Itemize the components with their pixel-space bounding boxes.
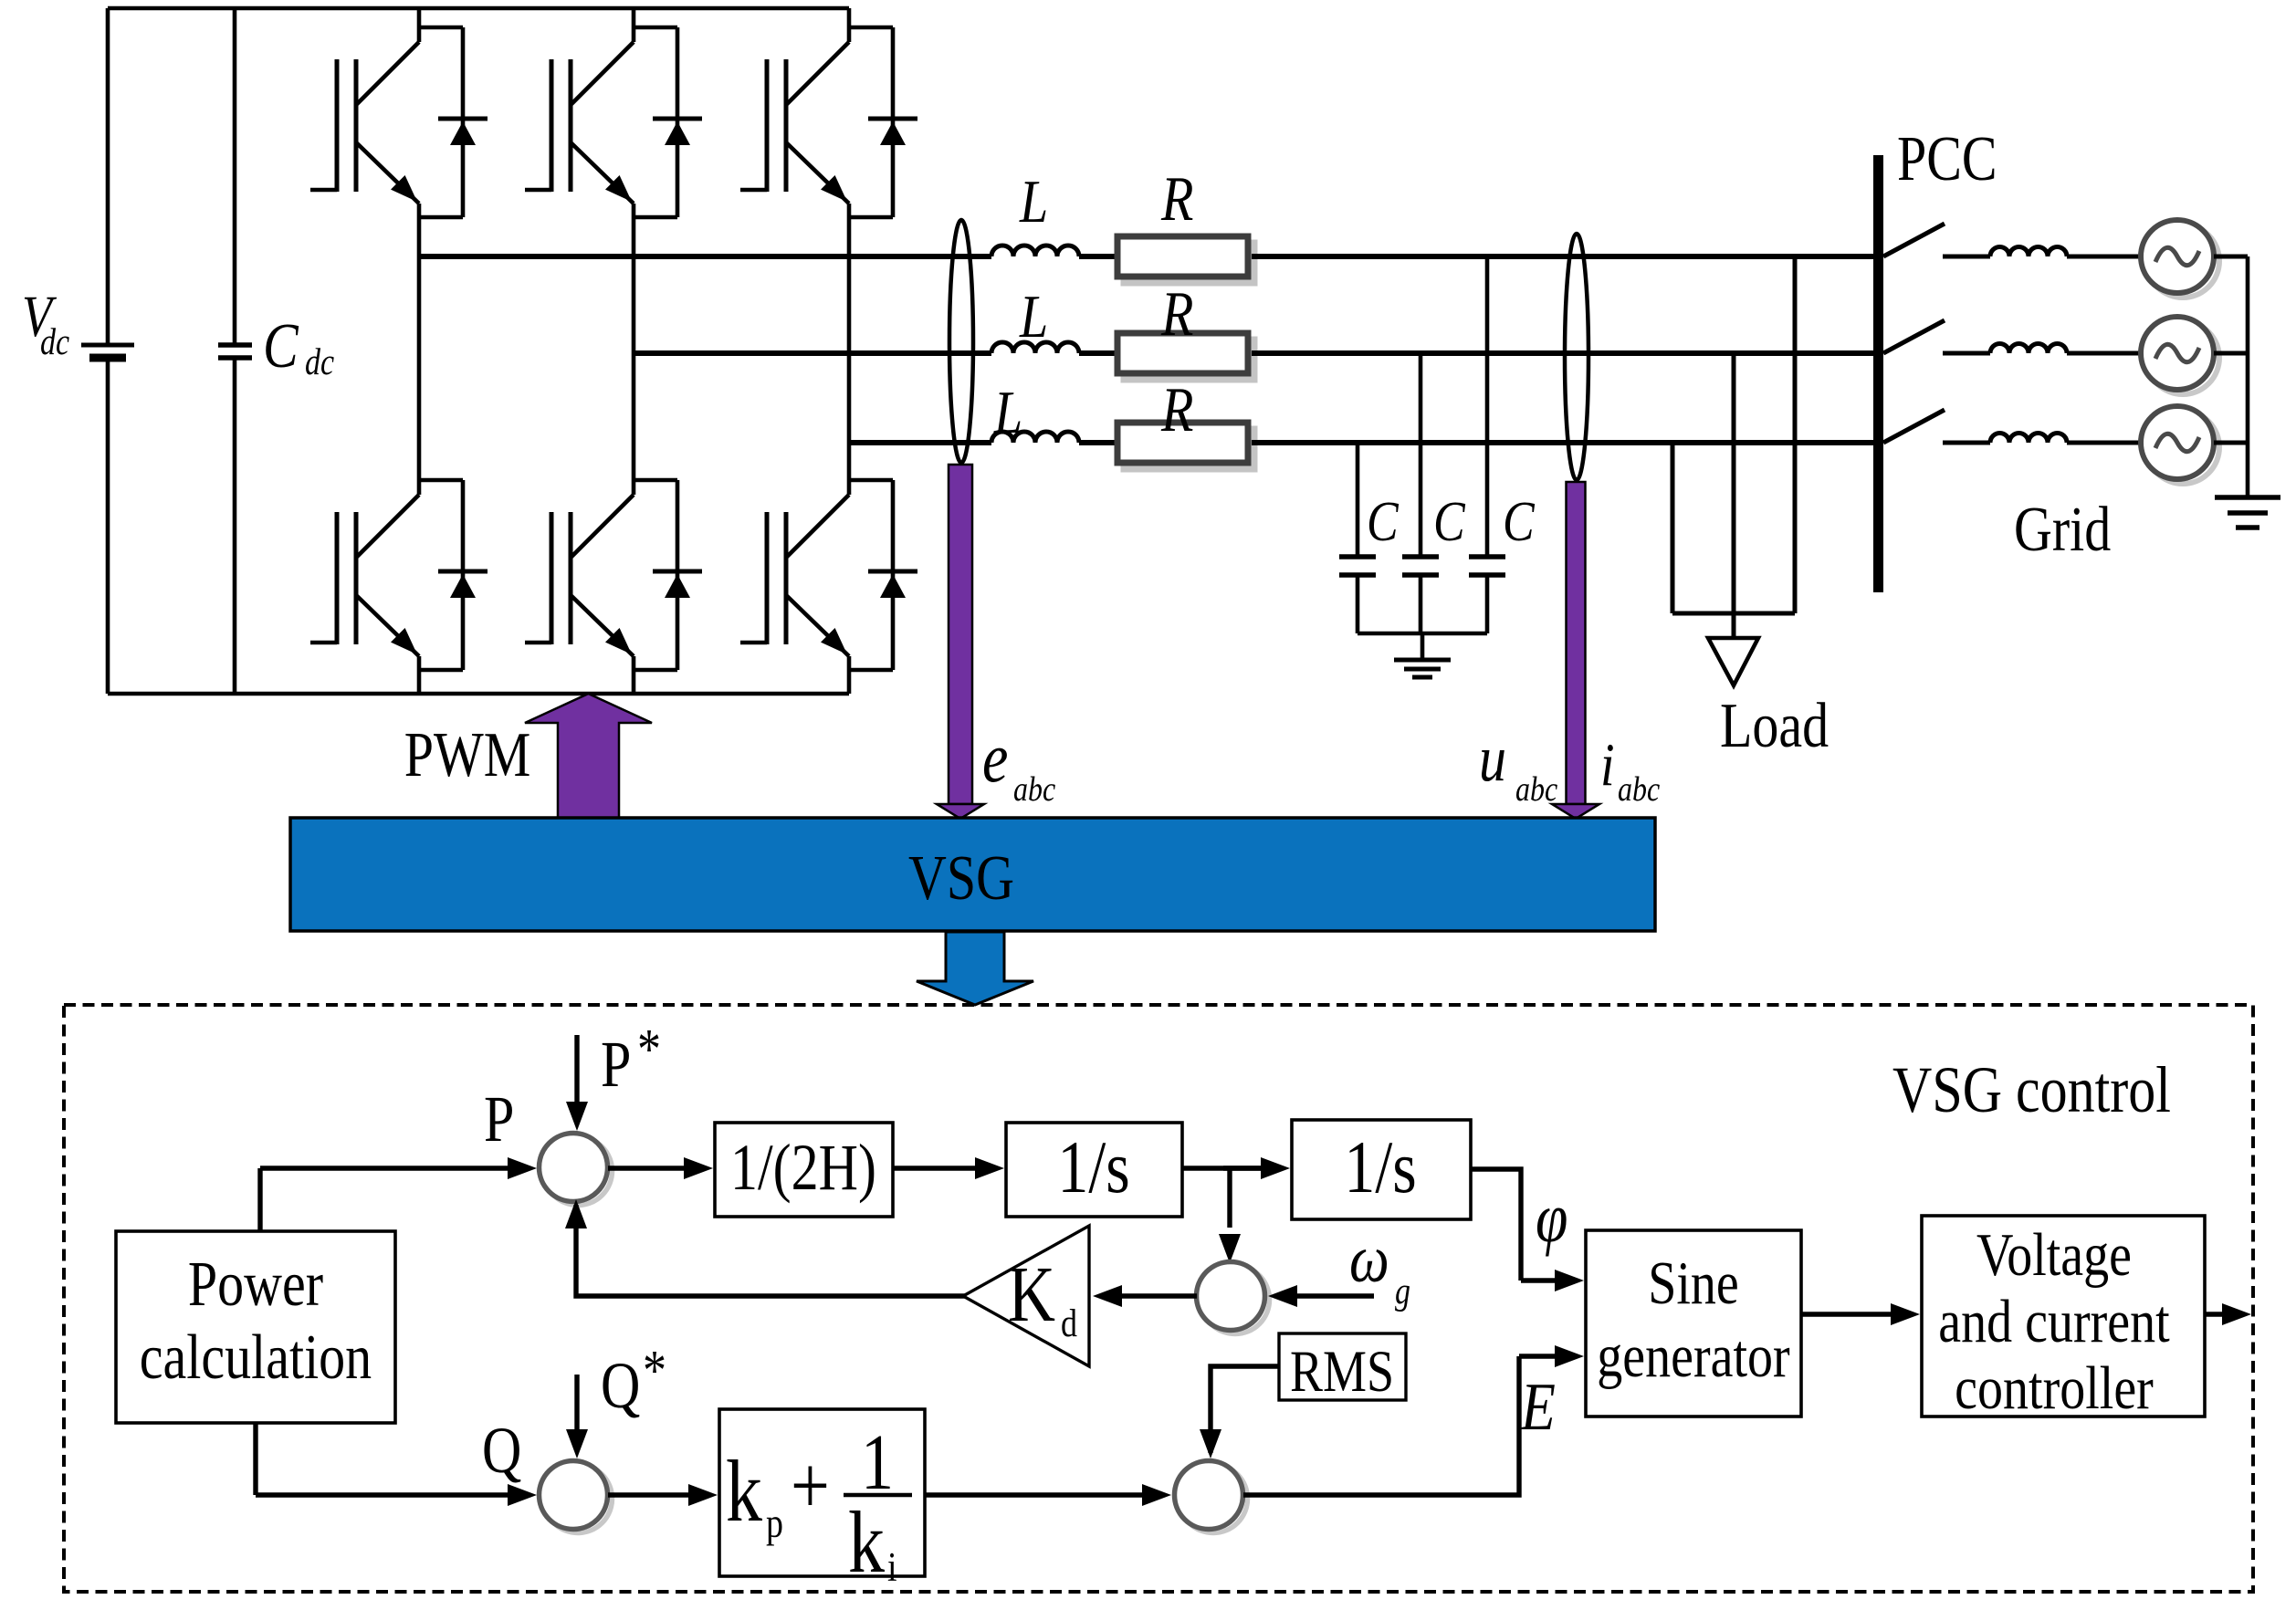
svg-text:K: K [1008, 1251, 1055, 1339]
svg-text:ω: ω [1349, 1221, 1389, 1297]
svg-text:dc: dc [40, 322, 69, 363]
svg-text:1/s: 1/s [1057, 1126, 1129, 1208]
svg-text:1/s: 1/s [1344, 1126, 1416, 1208]
svg-text:Q: Q [601, 1350, 640, 1422]
svg-text:*: * [637, 1019, 661, 1081]
svg-text:i: i [1600, 731, 1615, 799]
svg-text:+: + [791, 1440, 830, 1532]
svg-text:C: C [263, 310, 299, 381]
svg-text:e: e [982, 720, 1008, 798]
svg-text:E: E [1520, 1369, 1556, 1445]
svg-text:Voltage: Voltage [1976, 1221, 2132, 1289]
svg-text:φ: φ [1536, 1180, 1567, 1258]
svg-text:L: L [993, 379, 1022, 446]
svg-text:k: k [726, 1443, 763, 1540]
svg-text:RMS: RMS [1290, 1338, 1394, 1404]
svg-text:R: R [1160, 374, 1193, 444]
svg-text:Grid: Grid [2014, 494, 2111, 564]
svg-text:R: R [1160, 163, 1193, 234]
svg-text:Power: Power [188, 1249, 323, 1319]
svg-text:dc: dc [305, 342, 334, 383]
svg-text:abc: abc [1013, 769, 1055, 808]
svg-text:R: R [1160, 278, 1193, 349]
svg-text:d: d [1061, 1302, 1077, 1345]
svg-text:Sine: Sine [1648, 1249, 1739, 1317]
svg-text:1/(2H): 1/(2H) [730, 1132, 876, 1204]
svg-text:VSG control: VSG control [1892, 1054, 2171, 1126]
svg-text:k: k [848, 1494, 886, 1591]
svg-text:C: C [1503, 491, 1535, 553]
svg-text:p: p [766, 1501, 783, 1547]
svg-text:C: C [1433, 491, 1465, 553]
svg-text:P: P [601, 1029, 631, 1101]
svg-text:and current: and current [1938, 1288, 2169, 1355]
svg-text:controller: controller [1955, 1354, 2154, 1422]
svg-text:1: 1 [861, 1419, 894, 1507]
svg-text:u: u [1479, 723, 1506, 795]
svg-text:P: P [484, 1083, 514, 1155]
svg-text:Q: Q [482, 1415, 521, 1487]
svg-text:calculation: calculation [140, 1322, 372, 1392]
svg-text:VSG: VSG [908, 842, 1014, 913]
svg-text:L: L [1019, 283, 1048, 350]
svg-text:abc: abc [1515, 769, 1557, 808]
svg-text:generator: generator [1597, 1322, 1790, 1390]
svg-text:C: C [1367, 491, 1399, 553]
svg-text:*: * [643, 1340, 666, 1402]
svg-text:PWM: PWM [404, 719, 531, 789]
svg-text:i: i [887, 1545, 897, 1591]
svg-text:abc: abc [1618, 769, 1660, 808]
svg-text:Load: Load [1720, 690, 1829, 760]
svg-text:PCC: PCC [1897, 123, 1997, 193]
svg-text:L: L [1019, 168, 1048, 235]
svg-text:g: g [1395, 1271, 1410, 1312]
